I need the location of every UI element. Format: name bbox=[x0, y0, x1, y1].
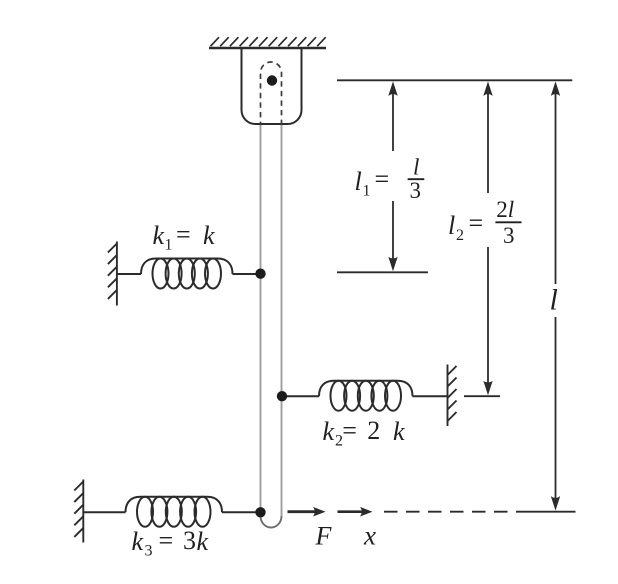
spring k3 bbox=[83, 497, 259, 527]
spring k2 bbox=[283, 381, 448, 411]
svg-text:x: x bbox=[363, 521, 376, 551]
force arrow F bbox=[288, 507, 326, 517]
svg-text:k1=k: k1=k bbox=[153, 220, 216, 254]
pivot bracket bbox=[242, 47, 302, 124]
dashed displacement baseline bbox=[384, 511, 522, 513]
dimension l1 (double arrow) bbox=[392, 85, 394, 267]
rod rounded bottom end bbox=[261, 516, 282, 528]
displacement arrow x bbox=[338, 507, 373, 517]
svg-text:k3=3k: k3=3k bbox=[132, 526, 209, 560]
svg-text:F: F bbox=[315, 522, 333, 551]
reference line at bottom of l2 bbox=[464, 395, 500, 397]
node: k2 attachment dot bbox=[277, 391, 287, 401]
rod (vertical bar with rounded bottom) bbox=[261, 125, 282, 517]
dimension l2 (double arrow) bbox=[487, 85, 489, 391]
wall anchor of spring k1 bbox=[108, 242, 117, 306]
node: k1 attachment dot bbox=[255, 269, 265, 279]
svg-text:l2=: l2= bbox=[448, 209, 483, 245]
ceiling support bbox=[209, 37, 326, 48]
solid end of baseline bbox=[522, 511, 576, 513]
wall anchor of spring k2 bbox=[448, 365, 457, 427]
pivot pin bbox=[267, 75, 277, 85]
dimension l (double arrow) bbox=[555, 85, 557, 507]
node: k3 attachment dot bbox=[255, 507, 265, 517]
top reference line bbox=[337, 79, 572, 81]
svg-text:l1=: l1= bbox=[355, 165, 390, 200]
spring k1 bbox=[117, 259, 259, 289]
svg-text:l: l bbox=[550, 284, 558, 317]
svg-text:k2=2k: k2=2k bbox=[323, 416, 406, 450]
rod upper end hidden inside bracket (dashed) bbox=[261, 62, 282, 127]
wall anchor of spring k3 bbox=[74, 480, 83, 543]
reference line at bottom of l1 bbox=[337, 271, 428, 273]
